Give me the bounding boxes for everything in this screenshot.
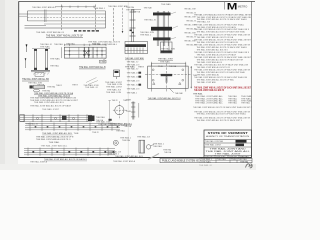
svg-text:THE RAIL: THE RAIL bbox=[193, 93, 203, 96]
expansion joint plan view bbox=[64, 44, 106, 46]
svg-text:THE RAIL JOINT AN: THE RAIL JOINT AN bbox=[205, 140, 224, 143]
svg-text:THE RAIL JOINT AND ALL BOL: THE RAIL JOINT AND ALL BOL bbox=[34, 101, 65, 104]
svg-text:THE RAI: THE RAI bbox=[144, 6, 152, 9]
svg-text:THE RAIL JOINT AND ALL BOLTS O: THE RAIL JOINT AND ALL BOLTS OF EACH bbox=[197, 53, 237, 56]
svg-text:THE RAIL JO: THE RAIL JO bbox=[127, 60, 139, 63]
svg-text:THE R: THE R bbox=[112, 100, 119, 102]
svg-text:THE RAIL JOINT AND ALL: THE RAIL JOINT AND ALL bbox=[32, 6, 57, 9]
svg-text:THE RAI: THE RAI bbox=[122, 139, 130, 142]
svg-text:THE RAIL JOI: THE RAIL JOI bbox=[186, 44, 196, 47]
svg-text:METRO: METRO bbox=[238, 4, 248, 8]
svg-text:THE R: THE R bbox=[138, 67, 144, 69]
svg-text:THE RAIL: THE RAIL bbox=[50, 58, 61, 61]
svg-text:THE RAIL JO: THE RAIL JO bbox=[26, 122, 38, 125]
svg-text:THE RAIL: THE RAIL bbox=[96, 116, 106, 119]
svg-text:THE RAIL JOINT AND ALL BOLTS O: THE RAIL JOINT AND ALL BOLTS OF EACH UNI… bbox=[197, 113, 247, 116]
pipe section detail bbox=[115, 106, 124, 115]
svg-text:THE RAIL JOI: THE RAIL JOI bbox=[127, 87, 140, 90]
svg-text:THE RAIL JOINT AND ALL: THE RAIL JOINT AND ALL bbox=[195, 102, 224, 105]
svg-text:THE RAIL JOINT AND ALL B: THE RAIL JOINT AND ALL B bbox=[197, 61, 223, 64]
svg-text:THE RAIL: THE RAIL bbox=[241, 102, 251, 105]
svg-text:THE RAIL JOINT AND AL: THE RAIL JOINT AND AL bbox=[197, 74, 220, 77]
svg-text:THE RAIL JOINT AND ALL BOLTS O: THE RAIL JOINT AND ALL BOLTS O bbox=[36, 138, 71, 141]
svg-text:THE RAIL JOI: THE RAIL JOI bbox=[127, 72, 140, 75]
svg-text:THE RAI: THE RAI bbox=[47, 86, 55, 89]
svg-text:THE RA: THE RA bbox=[121, 124, 128, 127]
svg-text:THE RAIL JOI: THE RAIL JOI bbox=[197, 21, 211, 24]
svg-text:THE RAIL JOIN: THE RAIL JOIN bbox=[106, 91, 122, 94]
svg-text:THE RAIL JO: THE RAIL JO bbox=[85, 86, 98, 89]
svg-text:THE RAIL JOINT AND ALL B: THE RAIL JOINT AND ALL B bbox=[36, 31, 65, 34]
svg-text:THE RAI: THE RAI bbox=[92, 42, 100, 45]
svg-text:THE RAIL: THE RAIL bbox=[153, 145, 163, 148]
svg-text:THE RAIL JOINT AND ALL BOLTS O: THE RAIL JOINT AND ALL BOLTS OF EACH bbox=[30, 105, 72, 108]
svg-text:THE RAIL JO: THE RAIL JO bbox=[144, 19, 156, 22]
title block bbox=[204, 130, 252, 158]
svg-text:THE RAIL JOINT AND ALL BO: THE RAIL JOINT AND ALL BO bbox=[22, 78, 49, 81]
svg-text:THE RAIL JOI: THE RAIL JOI bbox=[127, 80, 140, 83]
svg-text:THE RAIL J: THE RAIL J bbox=[140, 33, 151, 36]
svg-text:THE RA: THE RA bbox=[37, 83, 45, 86]
svg-text:THE RAIL JOINT AND ALL BOLTS O: THE RAIL JOINT AND ALL BOLTS OF EACH UNI… bbox=[197, 31, 246, 34]
svg-text:THE RAIL JOI: THE RAIL JOI bbox=[186, 20, 196, 23]
svg-text:THE RAIL JOINT: THE RAIL JOINT bbox=[184, 32, 197, 35]
bottom scan margin shading bbox=[0, 164, 256, 170]
svg-text:THE RAIL JOINT AND ALL BOLTS O: THE RAIL JOINT AND ALL BOLTS O bbox=[197, 48, 229, 51]
section C-C detail bbox=[161, 42, 173, 53]
svg-text:THE RAIL JOINT: THE RAIL JOINT bbox=[42, 108, 60, 111]
svg-text:THE RAIL JOINT AND ALL BOLTS O: THE RAIL JOINT AND ALL BOLTS O bbox=[148, 97, 181, 100]
svg-text:THE RAI: THE RAI bbox=[175, 92, 183, 95]
svg-text:THE RAIL: THE RAIL bbox=[49, 141, 61, 144]
svg-text:THE RAIL JOINT AND ALL BOLTS O: THE RAIL JOINT AND ALL BOLTS OF EACH UNI… bbox=[194, 86, 252, 89]
svg-text:THE RAIL JOI: THE RAIL JOI bbox=[186, 12, 196, 15]
upper guard timber plan band bbox=[25, 123, 120, 125]
svg-text:THE RAIL J: THE RAIL J bbox=[127, 91, 138, 94]
svg-text:THE RAIL JOINT: THE RAIL JOINT bbox=[184, 16, 197, 19]
svg-text:THE R: THE R bbox=[56, 85, 63, 87]
svg-text:THE RAIL JOINT AND ALL BOLTS O: THE RAIL JOINT AND ALL BOLTS OF EACH UNI… bbox=[197, 119, 243, 122]
logo separator tick bbox=[223, 2, 225, 10]
svg-text:THE RA: THE RA bbox=[164, 151, 172, 154]
svg-text:M: M bbox=[227, 1, 238, 11]
svg-text:THE RAIL J: THE RAIL J bbox=[94, 7, 105, 10]
svg-text:THE R: THE R bbox=[92, 132, 99, 134]
svg-text:THE RAIL JOINT AND: THE RAIL JOINT AND bbox=[108, 5, 129, 8]
svg-text:THE RAIL JOIN: THE RAIL JOIN bbox=[161, 47, 176, 50]
svg-text:THE RAIL: THE RAIL bbox=[116, 130, 126, 133]
scan page background bbox=[0, 0, 256, 170]
sheet border frame lines bbox=[19, 0, 255, 2]
svg-text:THE RAIL: THE RAIL bbox=[54, 43, 64, 46]
svg-text:THE RAIL JOI: THE RAIL JOI bbox=[137, 135, 150, 138]
svg-text:THE RAIL JOINT: THE RAIL JOINT bbox=[106, 86, 123, 89]
svg-text:THE RAIL JOINT: THE RAIL JOINT bbox=[184, 24, 197, 27]
svg-text:THE RAIL JOINT: THE RAIL JOINT bbox=[205, 144, 222, 147]
svg-text:THE RAIL JOINT: THE RAIL JOINT bbox=[184, 8, 197, 11]
scan fold slash bbox=[148, 154, 159, 160]
section B-B detail bbox=[125, 42, 148, 54]
approval strip bbox=[160, 158, 252, 162]
svg-text:THE R: THE R bbox=[72, 84, 79, 86]
svg-text:THE RAIL J: THE RAIL J bbox=[153, 143, 164, 146]
svg-text:THE RAI: THE RAI bbox=[240, 160, 249, 163]
svg-text:THE RAIL: THE RAIL bbox=[66, 42, 75, 45]
svg-text:THE RAIL JOINT AND: THE RAIL JOINT AND bbox=[125, 57, 144, 60]
svg-text:THE RA: THE RA bbox=[133, 11, 141, 14]
svg-text:THE RAIL: THE RAIL bbox=[40, 46, 51, 49]
svg-text:THE RAIL JOINT AND ALL: THE RAIL JOINT AND ALL bbox=[41, 144, 68, 147]
svg-text:THE RAIL JOINT AND: THE RAIL JOINT AND bbox=[197, 81, 217, 84]
svg-text:THE RAIL: THE RAIL bbox=[50, 65, 60, 68]
svg-text:THE RAIL JO: THE RAIL JO bbox=[127, 68, 139, 71]
left scan margin shading bbox=[0, 0, 18, 170]
svg-text:THE RAIL: THE RAIL bbox=[161, 3, 172, 6]
weld clip detail bbox=[114, 70, 120, 77]
svg-text:THE RAIL JOINT: THE RAIL JOINT bbox=[215, 153, 242, 156]
svg-text:THE RAIL JOINT AND ALL BOLTS O: THE RAIL JOINT AND ALL BOLTS OF EA bbox=[197, 36, 234, 39]
svg-text:THE RAIL JO: THE RAIL JO bbox=[127, 84, 139, 87]
svg-text:THE RAIL JO: THE RAIL JO bbox=[199, 164, 212, 167]
svg-text:THE RAIL JOINT A: THE RAIL JOINT A bbox=[30, 161, 48, 164]
rail joint section elevation bbox=[132, 9, 141, 11]
post and rail support assembly bbox=[32, 48, 50, 50]
svg-text:STATE OF VERMONT: STATE OF VERMONT bbox=[208, 131, 248, 135]
svg-text:THE RAIL JOINT AND ALL BOLTS O: THE RAIL JOINT AND ALL BOLTS OF bbox=[197, 66, 231, 69]
svg-text:THE: THE bbox=[231, 159, 236, 161]
svg-text:THE RA: THE RA bbox=[169, 65, 177, 68]
svg-text:THE RAIL JOINT AND ALL BOLTS O: THE RAIL JOINT AND ALL BOLTS OF EACH UNI… bbox=[193, 106, 253, 109]
scan fold line bbox=[127, 2, 129, 158]
svg-text:THE RAIL JOINT AND A: THE RAIL JOINT AND A bbox=[113, 160, 136, 163]
rail line stub at border bbox=[19, 13, 28, 15]
svg-text:THE RAIL JOINT AND ALL BOLTS: THE RAIL JOINT AND ALL BOLTS bbox=[194, 89, 224, 92]
svg-text:THE RAIL JOI: THE RAIL JOI bbox=[186, 36, 196, 39]
pencil annotation right bbox=[246, 164, 253, 168]
svg-text:AGENCY OF TRANSPORTATION: AGENCY OF TRANSPORTATION bbox=[206, 135, 250, 138]
svg-text:THE RAIL JOI: THE RAIL JOI bbox=[186, 28, 196, 31]
svg-text:THE RAIL JOINT: THE RAIL JOINT bbox=[184, 40, 197, 43]
weld clip leader marks bbox=[86, 78, 98, 85]
lower guard timber plan band bbox=[24, 148, 115, 150]
svg-text:THE RAIL JOINT AND ALL BOLTS O: THE RAIL JOINT AND ALL BOLTS OF EACH UN bbox=[197, 41, 239, 44]
svg-text:THE RAIL: THE RAIL bbox=[160, 61, 171, 64]
rail anchor plan view bbox=[151, 62, 185, 64]
svg-text:THE RAIL JOI: THE RAIL JOI bbox=[127, 64, 140, 67]
svg-text:PUBLIC LAND MOBILE SYSTEM NO: PUBLIC LAND MOBILE SYSTEM NO bbox=[162, 160, 199, 163]
svg-text:THE RAIL JOINT: THE RAIL JOINT bbox=[158, 58, 174, 61]
svg-text:THE RAIL: THE RAIL bbox=[228, 102, 238, 105]
compromise joint elevation bbox=[20, 114, 92, 116]
